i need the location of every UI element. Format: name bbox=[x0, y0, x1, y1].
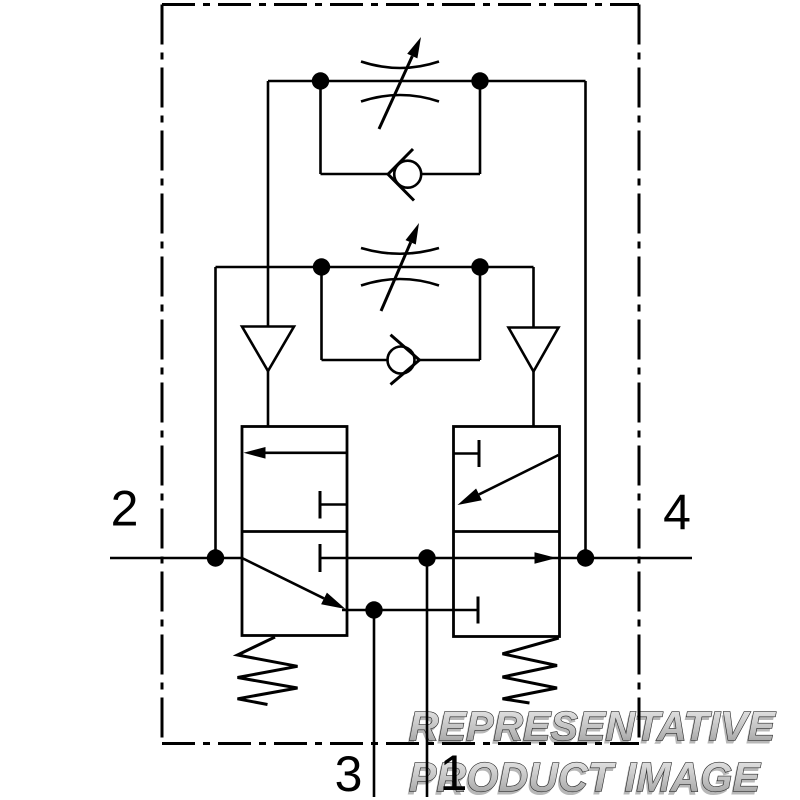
enclosure dash-dot border right bbox=[638, 5, 641, 744]
wire: right pilot triangle to valve V2 top port bbox=[532, 372, 535, 428]
flow control valve FC1 bypass left vertical bbox=[319, 81, 322, 174]
check valve CV1 seat bbox=[388, 149, 414, 201]
valve V1 top box flow arrow shaft bbox=[266, 451, 348, 454]
spring of valve V1 bbox=[238, 637, 298, 705]
throttle FC1 adjustment arrow shaft bbox=[379, 56, 412, 129]
wire: main line from left valve to port 4 bbox=[347, 557, 692, 560]
node on main line at left branch bbox=[207, 549, 224, 566]
wire: left pilot triangle to valve V1 top port bbox=[267, 371, 270, 427]
enclosure dash-dot border left bbox=[161, 5, 164, 744]
wire: vertical from middle loop to right pilot triangle bbox=[532, 267, 535, 328]
blocked-port bar in left valve bottom box bbox=[319, 544, 322, 572]
node on main line at port 1 branch bbox=[418, 549, 435, 566]
wire: vertical to port 3 bbox=[373, 610, 376, 797]
valve V1 position divider bbox=[242, 530, 347, 533]
node on bottom line to port 3 bbox=[365, 601, 382, 618]
node middle loop left bbox=[313, 258, 330, 275]
wire: middle loop horizontal bbox=[216, 266, 534, 269]
throttle FC1 upper arc bbox=[361, 62, 439, 69]
flow control valve FC1 bypass horizontal right bbox=[422, 173, 481, 176]
svg-text:3: 3 bbox=[335, 746, 363, 800]
valve V2 bottom box flow arrowhead bbox=[535, 552, 557, 564]
throttle FC2 adjustment arrow shaft bbox=[381, 242, 411, 311]
enclosure dash-dot border top bbox=[162, 3, 639, 6]
node top loop left bbox=[312, 72, 329, 89]
check valve CV1 ball bbox=[394, 161, 421, 188]
check valve CV2 seat bbox=[391, 335, 420, 385]
wire: vertical from top loop down to left pilot triangle bbox=[267, 81, 270, 327]
valve V1 body bbox=[242, 427, 347, 636]
flow control valve FC2 bypass horizontal right bbox=[419, 359, 480, 362]
wire: main line from port 2 to left valve bbox=[110, 557, 242, 560]
valve V2 body bbox=[454, 427, 560, 637]
flow control valve FC2 bypass left vertical bbox=[320, 267, 323, 360]
flow control valve FC1 bypass horizontal left bbox=[321, 173, 389, 176]
valve V2 position divider bbox=[454, 530, 560, 533]
valve V1 top box flow arrowhead bbox=[244, 447, 266, 459]
spring of valve V2 bbox=[503, 638, 559, 703]
node on main line at right branch bbox=[577, 549, 594, 566]
node top loop right bbox=[471, 72, 488, 89]
svg-text:4: 4 bbox=[663, 485, 691, 541]
throttle FC2 adjustment arrowhead bbox=[406, 223, 420, 245]
wire: left branch vertical down to main line node bbox=[214, 267, 217, 558]
wire: right branch vertical to node on main line bbox=[584, 81, 587, 558]
flow control valve FC2 bypass horizontal left bbox=[322, 359, 388, 362]
watermark REPRESENTATIVE PRODUCT IMAGE bbox=[407, 703, 777, 800]
valve V1 top box blocked stub bbox=[320, 503, 347, 506]
wire: vertical to port 1 bbox=[426, 558, 429, 797]
valve V1 top box blocked bar bbox=[319, 491, 322, 519]
throttle FC2 upper arc bbox=[361, 248, 439, 254]
pilot triangle right bbox=[509, 328, 559, 372]
valve V2 bottom box blocked bar bbox=[477, 597, 480, 624]
valve V2 top box blocked bar bbox=[478, 440, 481, 467]
node middle loop right bbox=[471, 258, 488, 275]
valve V1 bottom box diagonal arrowhead bbox=[321, 593, 345, 609]
flow control valve FC2 bypass right vertical bbox=[479, 267, 482, 360]
check valve CV2 ball bbox=[388, 347, 415, 374]
wire: blocked stub in left valve bottom box bbox=[320, 557, 347, 560]
flow control valve FC1 bypass right vertical bbox=[479, 81, 482, 174]
throttle FC1 adjustment arrowhead bbox=[407, 37, 421, 58]
wire: top loop horizontal bbox=[268, 80, 586, 83]
valve V1 bottom box diagonal shaft bbox=[242, 558, 324, 598]
svg-text:1: 1 bbox=[440, 745, 468, 800]
pilot triangle left bbox=[242, 327, 294, 372]
valve V2 top box diagonal arrowhead bbox=[458, 489, 482, 506]
valve V2 top box diagonal shaft bbox=[479, 455, 559, 494]
throttle FC1 lower arc bbox=[361, 95, 439, 102]
enclosure dash-dot border bottom bbox=[162, 742, 639, 745]
svg-text:2: 2 bbox=[111, 481, 139, 537]
valve V2 top box blocked stub bbox=[454, 452, 480, 455]
throttle FC2 lower arc bbox=[361, 279, 439, 286]
wire: left valve bottom exit to right valve blocked port bbox=[342, 609, 478, 612]
